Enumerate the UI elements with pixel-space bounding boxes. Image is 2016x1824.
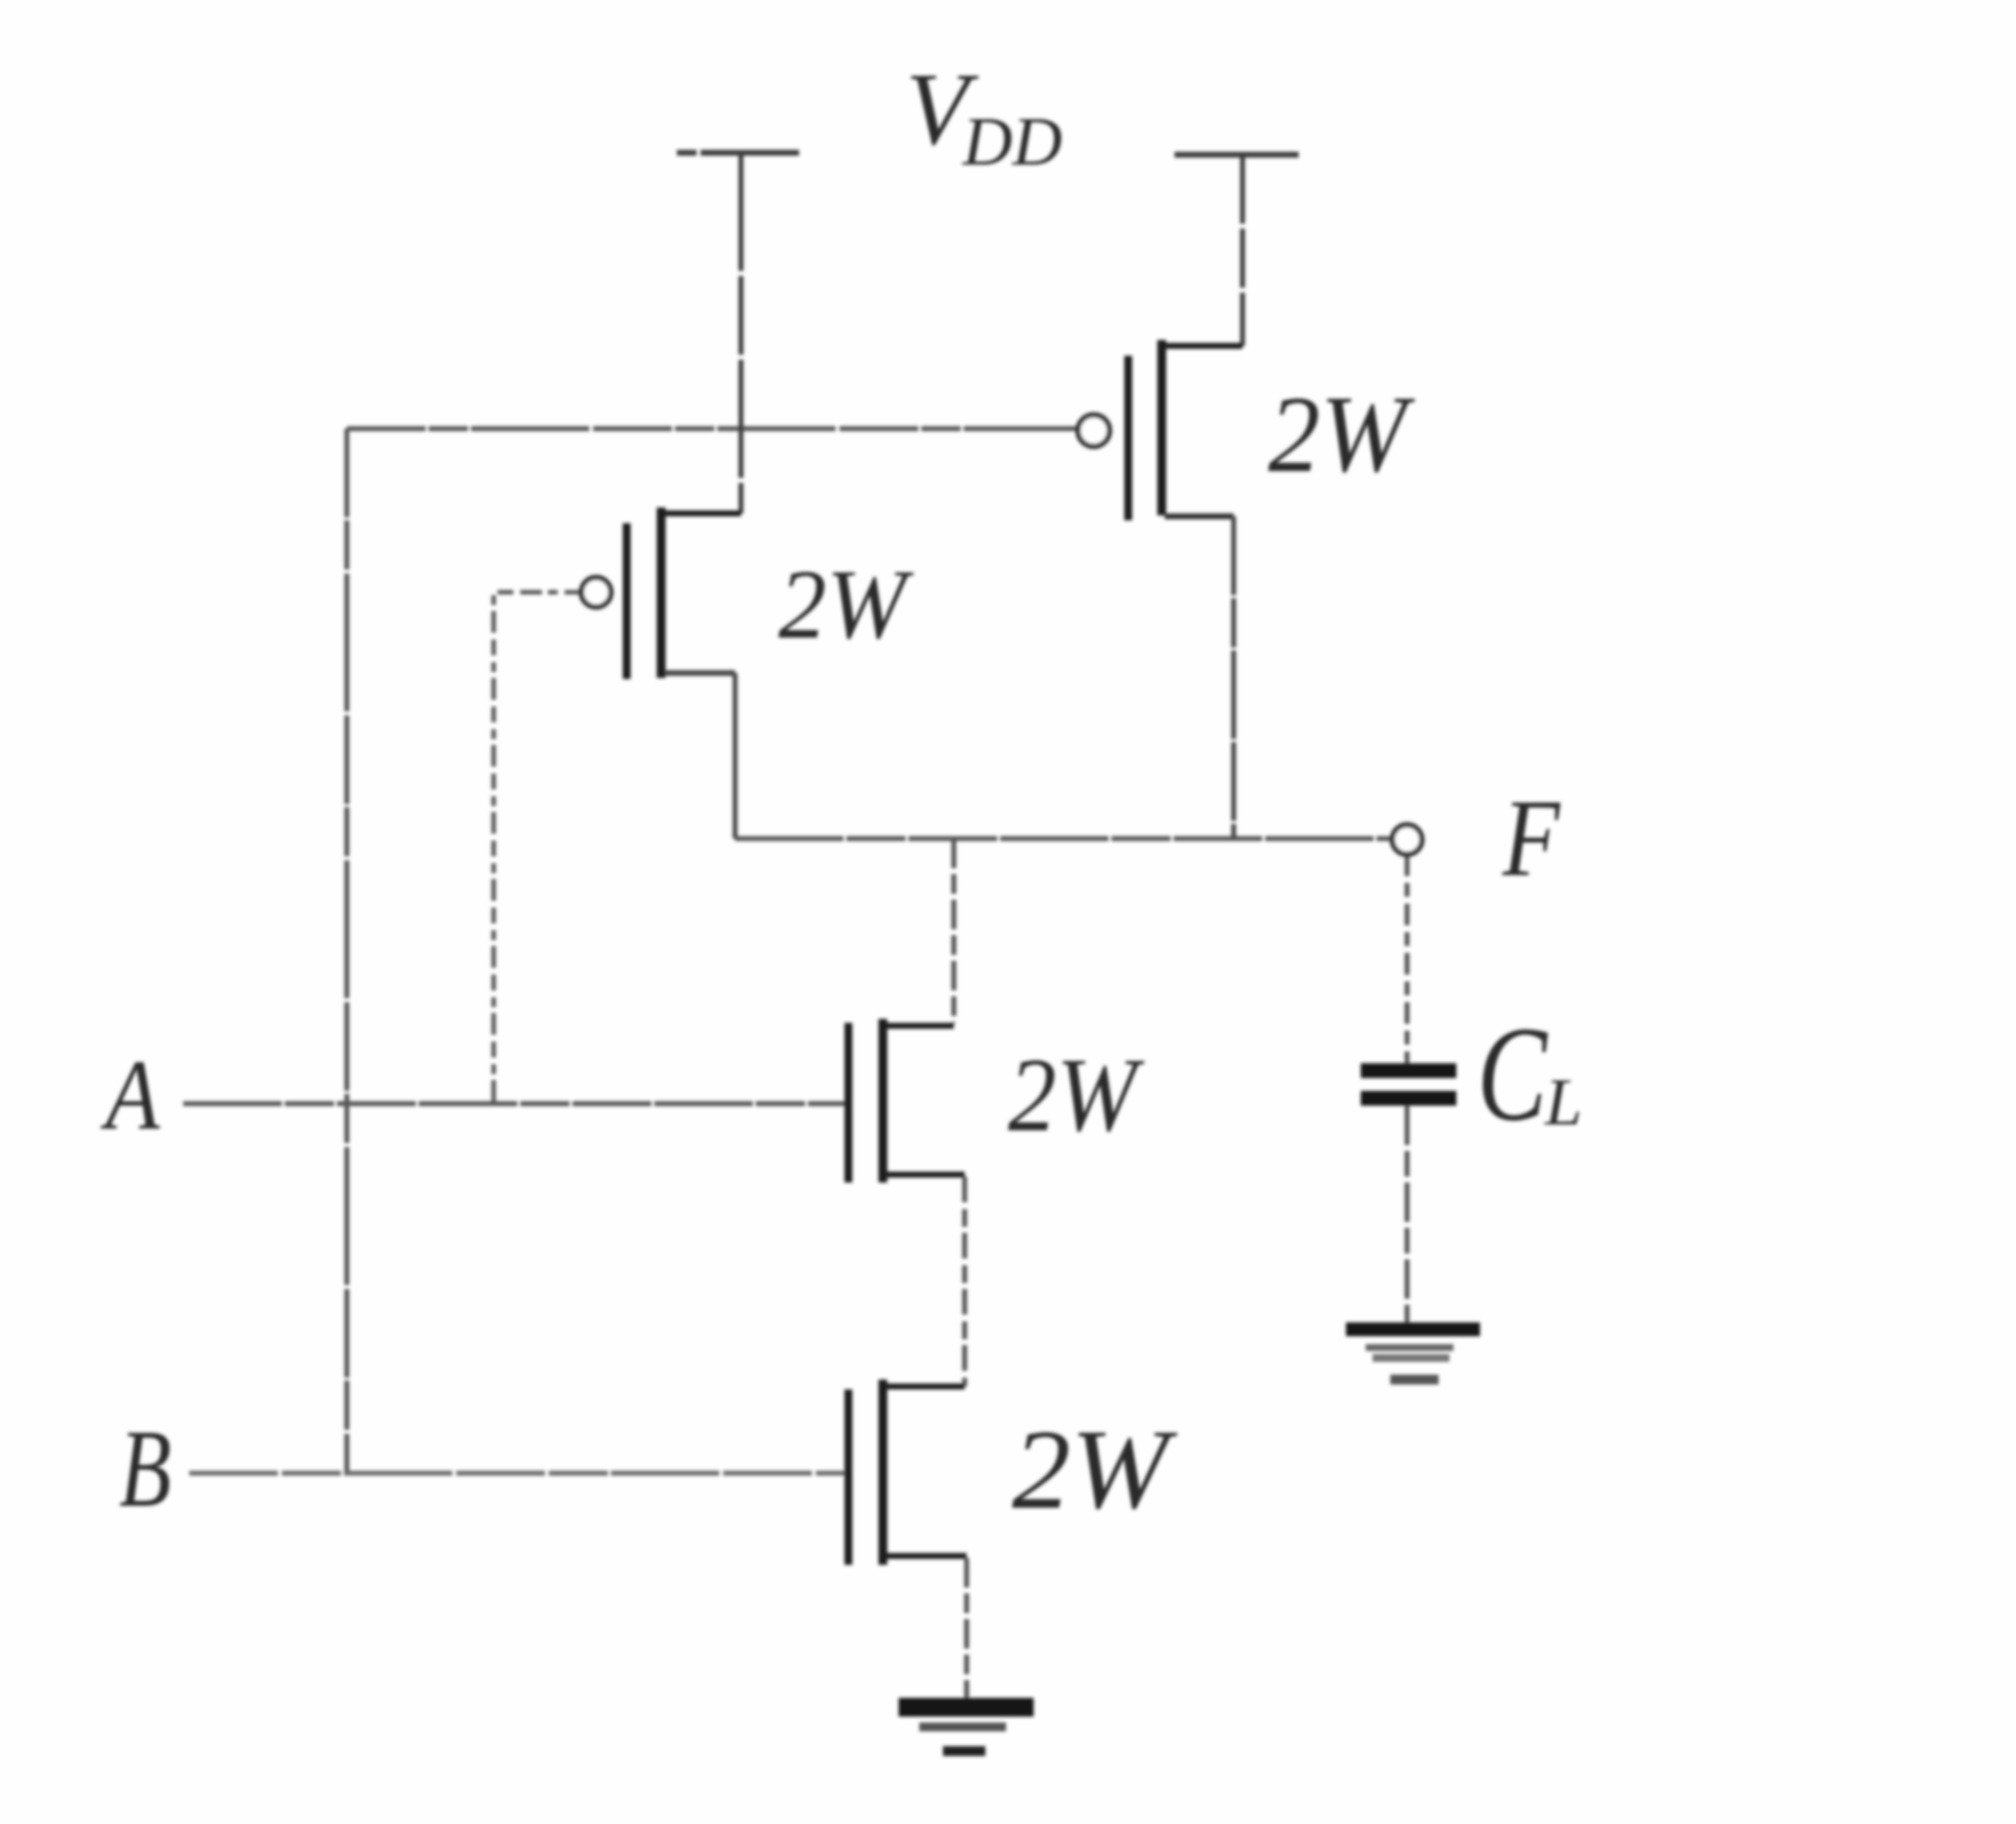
- svg-text:A: A: [101, 1040, 161, 1151]
- svg-text:2W: 2W: [1268, 374, 1415, 496]
- svg-text:2W: 2W: [1008, 1038, 1145, 1154]
- svg-text:B: B: [119, 1408, 171, 1530]
- svg-text:L: L: [1544, 1064, 1582, 1139]
- svg-text:2W: 2W: [778, 549, 914, 659]
- svg-text:DD: DD: [962, 104, 1062, 180]
- svg-text:2W: 2W: [1012, 1407, 1178, 1533]
- svg-text:C: C: [1477, 998, 1549, 1149]
- svg-text:F: F: [1502, 777, 1561, 900]
